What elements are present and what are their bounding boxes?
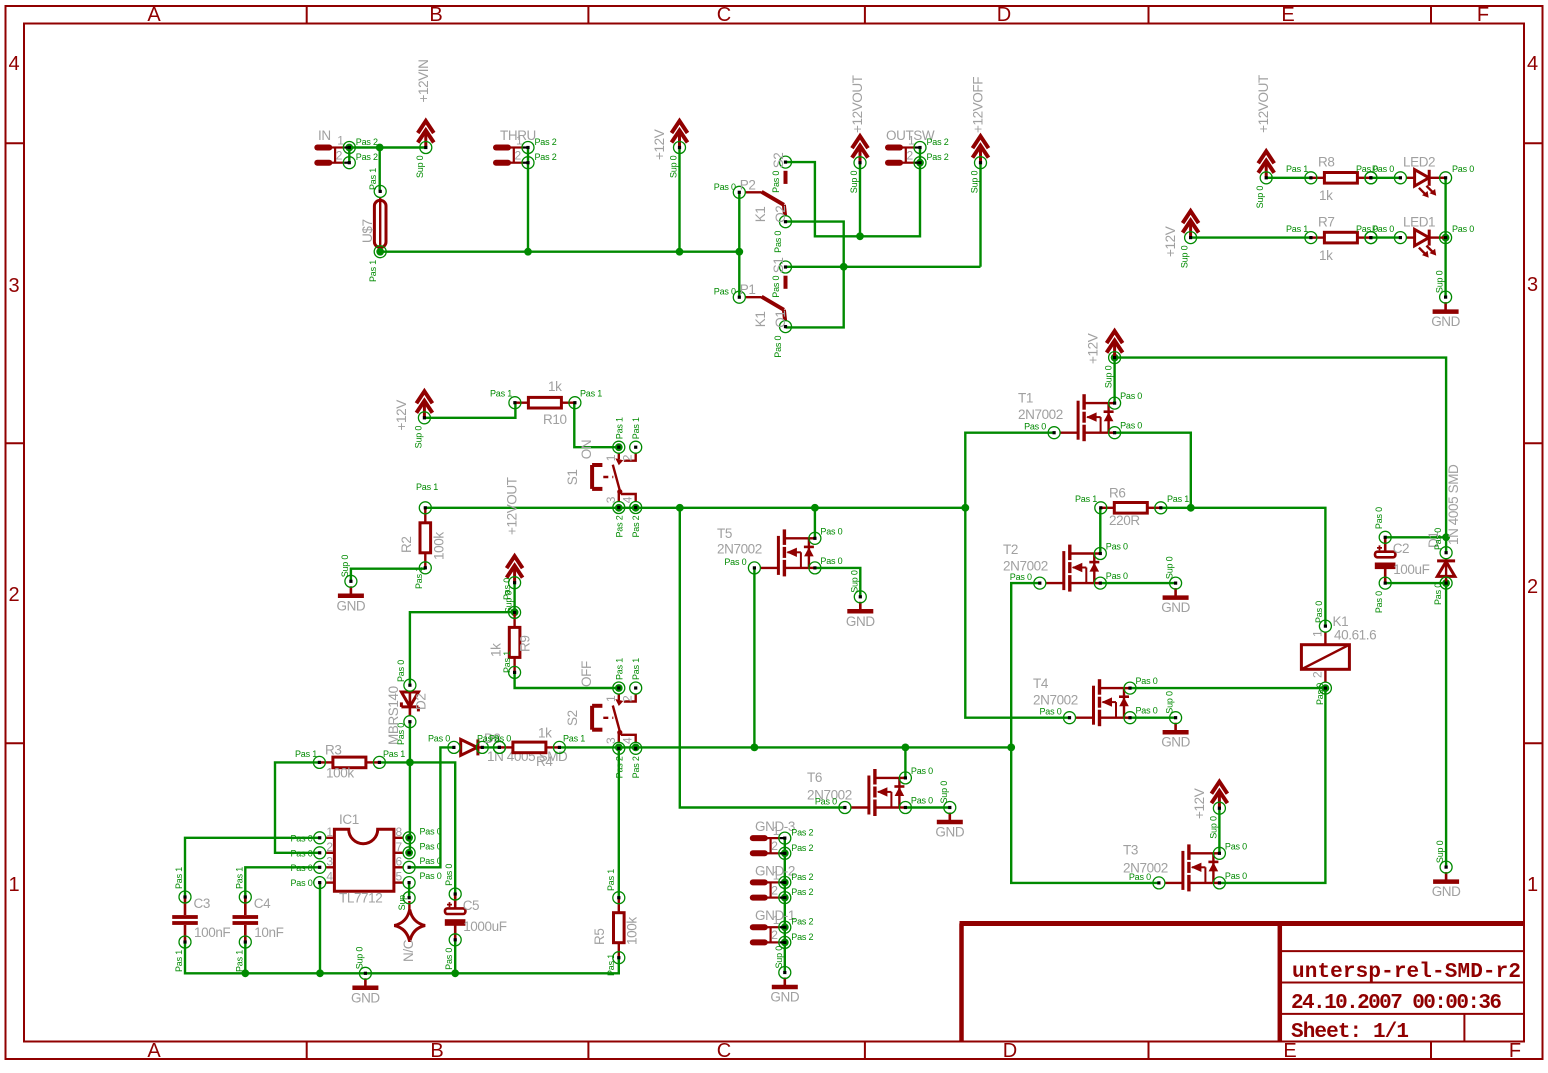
svg-text:S1: S1	[771, 257, 786, 273]
svg-text:Pas 1: Pas 1	[606, 869, 616, 891]
wire D1 bottom long down to GND	[1445, 583, 1447, 867]
svg-text:Pas 0: Pas 0	[1374, 507, 1384, 529]
svg-text:Pas 1: Pas 1	[631, 658, 641, 680]
wire K1 poles vertical P2-P1	[738, 192, 740, 297]
wire T6 gate branch	[680, 508, 845, 808]
node junction T5 gate	[751, 744, 759, 752]
svg-text:R7: R7	[1318, 214, 1334, 229]
relay contact K1 lower (P1/S1/O1)	[745, 276, 785, 321]
svg-text:A: A	[147, 1040, 161, 1062]
supply +12VOUT at R9	[507, 556, 523, 582]
svg-text:Sup 0: Sup 0	[1255, 186, 1265, 209]
ground GND at LEDs	[1433, 302, 1459, 312]
svg-text:Sup: Sup	[397, 895, 407, 911]
wire C4 bottom	[244, 942, 246, 973]
svg-text:Pas 0: Pas 0	[1315, 683, 1325, 705]
resistor R2	[420, 508, 431, 568]
svg-text:Pas 1: Pas 1	[631, 417, 641, 439]
svg-text:+12VOUT: +12VOUT	[850, 75, 865, 133]
svg-text:+12V: +12V	[394, 400, 409, 431]
svg-text:2: 2	[907, 149, 914, 163]
svg-text:+12V: +12V	[1192, 788, 1207, 819]
svg-text:Sup 0: Sup 0	[354, 947, 364, 970]
svg-text:Pas 0: Pas 0	[1010, 572, 1032, 582]
supply +12VOFF	[973, 136, 989, 162]
svg-text:O1: O1	[773, 310, 788, 327]
svg-text:Pas 2: Pas 2	[631, 756, 641, 778]
svg-text:Pas 2: Pas 2	[535, 152, 557, 162]
resistor R10	[515, 397, 575, 408]
svg-text:Pas 0: Pas 0	[1136, 706, 1158, 716]
svg-text:B: B	[430, 1040, 443, 1062]
svg-text:D: D	[997, 4, 1011, 26]
svg-text:Pas 0: Pas 0	[1024, 422, 1046, 432]
svg-text:1: 1	[8, 874, 19, 896]
wire THRU pin2 down	[527, 163, 529, 252]
svg-text:Pas 0: Pas 0	[396, 723, 406, 745]
svg-text:Pas 1: Pas 1	[614, 417, 624, 439]
node junction T5 drain branch	[811, 504, 819, 512]
svg-text:10nF: 10nF	[254, 925, 283, 940]
wire LED2 cathode down to LED1 cathode	[1444, 178, 1446, 238]
wire C4 top to IC1 pin3	[245, 867, 319, 897]
svg-text:Pas 1: Pas 1	[502, 651, 512, 673]
svg-text:C: C	[717, 1040, 731, 1062]
svg-text:2: 2	[326, 840, 333, 854]
svg-text:6: 6	[396, 854, 403, 868]
svg-text:220R: 220R	[1109, 513, 1140, 528]
svg-text:Pas 0: Pas 0	[724, 557, 746, 567]
svg-text:Pas 1: Pas 1	[368, 168, 378, 190]
wire main horizontal net after fuse	[380, 250, 739, 252]
switch S1 ON	[592, 453, 636, 501]
node junction S1 pin1	[615, 443, 623, 451]
svg-text:1: 1	[1311, 630, 1325, 637]
svg-text:Sup 0: Sup 0	[849, 570, 859, 593]
svg-text:Sup 0: Sup 0	[340, 555, 350, 578]
svg-text:Pas 1: Pas 1	[368, 260, 378, 282]
svg-text:Pas 2: Pas 2	[791, 932, 813, 942]
svg-text:R5: R5	[592, 929, 607, 945]
svg-text:3: 3	[326, 854, 333, 868]
wire T4 gate branch	[965, 508, 1069, 718]
svg-text:Pas 2: Pas 2	[356, 152, 378, 162]
svg-text:Sup 0: Sup 0	[1435, 270, 1445, 293]
wire LED cathodes to GND	[1444, 238, 1446, 298]
svg-text:Pas 1: Pas 1	[414, 567, 424, 589]
svg-text:R4: R4	[536, 754, 553, 769]
wire junction to relay K1 pin1	[1191, 508, 1326, 626]
node junction T2/T3 gate column	[1007, 744, 1015, 752]
supply +12VIN	[418, 121, 434, 147]
svg-text:3: 3	[1527, 274, 1538, 296]
diode D3 1N4005	[460, 739, 482, 755]
svg-text:1k: 1k	[548, 379, 562, 394]
svg-text:Pas 0: Pas 0	[1106, 571, 1128, 581]
node junction S1 pin4	[632, 504, 640, 512]
svg-text:Pas 0: Pas 0	[1433, 528, 1443, 550]
svg-text:Pas 2: Pas 2	[614, 515, 624, 537]
svg-text:P1: P1	[740, 282, 756, 297]
svg-text:Pas 0: Pas 0	[428, 734, 450, 744]
capacitor C2 polarized	[1375, 537, 1396, 583]
svg-text:Pas 0: Pas 0	[1120, 421, 1142, 431]
svg-text:Pas 0: Pas 0	[420, 841, 442, 851]
svg-text:Pas 2: Pas 2	[927, 152, 949, 162]
svg-text:1: 1	[604, 454, 618, 461]
supply +12V at T1	[1107, 331, 1123, 357]
svg-text:Pas 2: Pas 2	[791, 843, 813, 853]
node junction +12V T1	[1111, 354, 1119, 362]
resistor R6	[1101, 503, 1161, 514]
svg-text:Pas 1: Pas 1	[174, 867, 184, 889]
wire +12V A10 to T3 drain	[1218, 808, 1220, 853]
node junction D2/R3/C5/IC node	[406, 759, 414, 767]
wire node to C5 top	[410, 762, 455, 893]
svg-text:GND: GND	[846, 614, 875, 629]
node junction +12VOUT drop	[856, 232, 864, 240]
transistor T5	[760, 529, 815, 576]
connector IN	[317, 148, 349, 163]
svg-text:2: 2	[771, 883, 778, 897]
svg-text:Pas 0: Pas 0	[290, 848, 312, 858]
svg-text:Pas 2: Pas 2	[791, 917, 813, 927]
svg-text:R6: R6	[1109, 486, 1125, 501]
svg-text:2: 2	[771, 839, 778, 853]
svg-text:R10: R10	[543, 412, 567, 427]
node junction GND-2 pin2	[781, 894, 789, 902]
svg-text:Pas 0: Pas 0	[773, 231, 783, 253]
wire T1 gate branch	[965, 433, 1054, 508]
svg-text:Sup 0: Sup 0	[849, 171, 859, 194]
svg-text:Pas 2: Pas 2	[791, 887, 813, 897]
node junction IC1 pin4 bus	[316, 969, 324, 977]
wire T2 gate column	[1011, 583, 1159, 883]
ground GND at T2	[1163, 588, 1189, 598]
wire net +12VIN from IN connector	[349, 146, 426, 148]
wire +12VOUT A3 drop	[859, 163, 861, 237]
svg-text:Pas 1: Pas 1	[295, 749, 317, 759]
wire OFF row net	[560, 746, 1012, 748]
wire +12V A9 to T1 drain	[1113, 358, 1115, 404]
node junction OUTSW pin2	[916, 159, 924, 167]
svg-text:Sup 0: Sup 0	[774, 946, 784, 969]
svg-text:Pas 1: Pas 1	[1286, 164, 1308, 174]
svg-text:LED2: LED2	[1403, 155, 1435, 170]
connector GND-2	[753, 882, 785, 897]
svg-text:1: 1	[773, 824, 780, 838]
svg-text:Pas 0: Pas 0	[444, 864, 454, 886]
svg-text:Pas 1: Pas 1	[234, 950, 244, 972]
wire R9 top to D2 anode	[410, 612, 515, 685]
svg-text:C3: C3	[194, 896, 210, 911]
svg-text:Pas 0: Pas 0	[820, 556, 842, 566]
svg-text:O2: O2	[773, 206, 788, 223]
fuse U$7	[374, 197, 386, 251]
svg-text:Pas 0: Pas 0	[911, 766, 933, 776]
svg-text:Pas 0: Pas 0	[502, 578, 512, 600]
wire R3 left to IC1 pin2	[275, 762, 320, 852]
svg-text:8: 8	[396, 825, 403, 839]
svg-text:Sup 0: Sup 0	[1104, 365, 1114, 388]
node junction C4 bottom	[241, 969, 249, 977]
relay contact K1 upper (P2/S2/O2)	[745, 171, 785, 216]
svg-text:D: D	[1003, 1040, 1017, 1062]
diode D1 1N4005 SMD	[1437, 559, 1455, 583]
wire IC1 pin4 down to ground bus	[319, 883, 321, 974]
svg-text:Pas 1: Pas 1	[606, 954, 616, 976]
connector GND-3	[753, 838, 785, 853]
svg-text:Pas 0: Pas 0	[714, 287, 736, 297]
svg-text:GND: GND	[1161, 735, 1190, 750]
svg-text:Sup 0: Sup 0	[415, 155, 425, 178]
ground GND at diode column	[1433, 872, 1459, 882]
svg-text:4: 4	[1527, 53, 1538, 75]
svg-text:Pas 0: Pas 0	[771, 276, 781, 298]
svg-text:C2: C2	[1393, 541, 1409, 556]
wire T5 gate down	[753, 568, 755, 748]
node junction GND-1 pin2	[781, 939, 789, 947]
svg-text:Pas 0: Pas 0	[1374, 591, 1384, 613]
svg-text:Sup 0: Sup 0	[970, 171, 980, 194]
svg-text:4: 4	[621, 496, 635, 503]
svg-text:Sup 0: Sup 0	[669, 155, 679, 178]
wire R3 right to node	[380, 761, 410, 763]
svg-text:Pas 2: Pas 2	[791, 872, 813, 882]
wire relay pin2 down to T3 source	[1219, 688, 1325, 883]
node junction C5 bottom bus	[451, 969, 459, 977]
svg-text:Pas 0: Pas 0	[1120, 391, 1142, 401]
svg-text:IN: IN	[318, 128, 331, 143]
svg-text:T6: T6	[807, 770, 822, 785]
svg-text:Pas 2: Pas 2	[631, 515, 641, 537]
connector OUTSW	[888, 148, 920, 163]
svg-text:GND: GND	[351, 990, 380, 1005]
ground GND at T5	[847, 602, 873, 612]
wire T6 drain up	[904, 747, 906, 778]
svg-text:R2: R2	[399, 537, 414, 553]
svg-text:Pas 2: Pas 2	[535, 137, 557, 147]
svg-text:Sup 0: Sup 0	[1180, 245, 1190, 268]
wire C2 top to column	[1385, 536, 1446, 538]
led LED1	[1406, 229, 1445, 257]
svg-text:1: 1	[604, 695, 618, 702]
wire +12VOUT A8 to R9 top	[513, 583, 515, 613]
svg-text:Pas 0: Pas 0	[1225, 841, 1247, 851]
svg-text:Pas 0: Pas 0	[290, 833, 312, 843]
node junction GND-2 pin1	[781, 879, 789, 887]
svg-text:Pas 0: Pas 0	[444, 948, 454, 970]
svg-text:Pas 1: Pas 1	[234, 867, 244, 889]
svg-text:2: 2	[621, 454, 635, 461]
svg-text:Pas 1: Pas 1	[416, 482, 438, 492]
node junction R9 top	[511, 608, 519, 616]
wire C2 bottom to D1 bottom	[1385, 582, 1446, 584]
switch S2 OFF	[592, 694, 636, 742]
svg-text:GND: GND	[1431, 314, 1460, 329]
svg-text:R3: R3	[325, 743, 341, 758]
svg-text:1: 1	[326, 825, 333, 839]
svg-text:GND: GND	[770, 990, 799, 1005]
svg-text:100k: 100k	[432, 532, 447, 560]
wire node down to IC1 pins 8 and 7	[409, 762, 411, 852]
resistor R9	[509, 612, 520, 672]
svg-text:B: B	[429, 4, 442, 26]
svg-text:Pas 0: Pas 0	[714, 182, 736, 192]
svg-text:Pas 1: Pas 1	[580, 389, 602, 399]
svg-text:Sup 0: Sup 0	[1208, 816, 1218, 839]
wire R6 right to junction	[1161, 507, 1191, 509]
svg-text:2N7002: 2N7002	[1018, 407, 1063, 422]
ground GND at T4	[1163, 723, 1189, 733]
svg-text:2: 2	[771, 928, 778, 942]
svg-text:S2: S2	[771, 153, 786, 169]
svg-text:3: 3	[8, 275, 19, 297]
svg-text:2: 2	[515, 149, 522, 163]
node junction T6 gate branch	[676, 504, 684, 512]
transistor T3	[1165, 844, 1220, 891]
node junction GND-3 pin2	[781, 849, 789, 857]
svg-text:+12VOFF: +12VOFF	[971, 77, 986, 133]
svg-text:OFF: OFF	[579, 661, 594, 687]
svg-text:Pas 1: Pas 1	[174, 950, 184, 972]
wire IC1 pin5 to NC	[408, 883, 410, 898]
svg-text:Pas 0: Pas 0	[1039, 707, 1061, 717]
wire +12V to R7	[1191, 236, 1311, 238]
wire K1 O2 throw to O1 vertical	[786, 222, 844, 328]
svg-text:P2: P2	[740, 177, 756, 192]
svg-text:1N 4005 SMD: 1N 4005 SMD	[1446, 464, 1461, 545]
svg-text:Pas 0: Pas 0	[1106, 542, 1128, 552]
wire C3 top to IC1 pin1	[185, 838, 320, 897]
svg-text:R9: R9	[518, 636, 533, 652]
wire +12V row to C2/D1 column	[1115, 358, 1447, 538]
led LED2	[1406, 170, 1445, 198]
wire T4 source to GND	[1130, 717, 1176, 719]
svg-text:24.10.2007 00:00:36: 24.10.2007 00:00:36	[1291, 992, 1502, 1015]
svg-text:1: 1	[773, 913, 780, 927]
title block	[960, 924, 1525, 1042]
wire IC1 pin6 to D3 anode	[409, 747, 454, 867]
wire T1 source down	[1115, 433, 1191, 508]
svg-text:2: 2	[336, 149, 343, 163]
node junction R6 right / T1 source	[1187, 504, 1195, 512]
wire C5 bottom	[454, 940, 456, 973]
node junction T1/T4 gate branch	[961, 504, 969, 512]
svg-text:+12VIN: +12VIN	[416, 59, 431, 102]
wire T4 drain to relay K1 pin2	[1130, 687, 1325, 689]
transistor T6	[851, 769, 906, 816]
svg-text:Sup 0: Sup 0	[939, 781, 949, 804]
node junction +12V drop	[676, 248, 684, 256]
svg-text:T2: T2	[1003, 542, 1018, 557]
transistor T4	[1076, 679, 1131, 726]
svg-text:IC1: IC1	[339, 812, 359, 827]
supply +12VOUT at R8	[1258, 151, 1274, 177]
svg-text:K1: K1	[753, 311, 768, 327]
svg-text:100uF: 100uF	[1393, 562, 1429, 577]
wire OUTSW pin1 to pin2	[919, 148, 921, 163]
resistor R3	[319, 757, 379, 768]
node junction LED1 cathode	[1442, 234, 1450, 242]
svg-text:+12V: +12V	[1163, 226, 1178, 257]
svg-text:GND: GND	[935, 825, 964, 840]
ground GND at R2	[338, 586, 364, 596]
wire net +12VOUT long row	[425, 507, 965, 509]
svg-text:Pas 0: Pas 0	[1314, 601, 1324, 623]
ground GND at T6	[937, 813, 963, 823]
svg-text:3: 3	[604, 737, 618, 744]
node junction relay pin2	[1322, 684, 1330, 692]
svg-text:100nF: 100nF	[194, 925, 230, 940]
wire +12V A7 to R10	[424, 403, 515, 418]
svg-text:Pas 1: Pas 1	[563, 734, 585, 744]
node junction IC1 pin8	[405, 834, 413, 842]
svg-text:Pas 0: Pas 0	[420, 856, 442, 866]
svg-text:Pas 0: Pas 0	[420, 871, 442, 881]
svg-text:Pas 0: Pas 0	[290, 863, 312, 873]
ground GND at IC bus	[352, 978, 378, 988]
svg-text:S1: S1	[565, 469, 580, 485]
wire T6 source to GND	[905, 806, 949, 808]
wire R9 bottom to S2 pin1	[515, 673, 619, 688]
svg-text:Pas 0: Pas 0	[820, 526, 842, 536]
svg-text:4: 4	[621, 737, 635, 744]
svg-text:GND: GND	[1432, 884, 1461, 899]
svg-text:N/C: N/C	[401, 939, 416, 962]
svg-text:T4: T4	[1033, 676, 1049, 691]
svg-text:4: 4	[326, 870, 333, 884]
svg-text:4: 4	[8, 53, 19, 75]
node junction S1 pin3	[615, 504, 623, 512]
supply +12V at R7	[1183, 211, 1199, 237]
wire column to D1 anode	[1445, 537, 1447, 552]
node junction OFF net	[840, 263, 848, 271]
svg-text:Pas 1: Pas 1	[1075, 494, 1097, 504]
wire R2 bottom to GND	[351, 569, 425, 582]
svg-text:TL7712: TL7712	[339, 891, 382, 906]
wire GND connector chain	[784, 838, 786, 972]
supply +12V at R10	[416, 391, 432, 417]
relay coil K1 40.61.6	[1301, 632, 1349, 682]
ground GND at connector chain	[772, 978, 798, 988]
svg-text:1: 1	[516, 134, 523, 148]
wire R7 to LED1	[1371, 236, 1401, 238]
node junction S2 pin1	[615, 684, 623, 692]
wire T5 drain branch	[814, 508, 816, 539]
node junction S2 pin4	[632, 744, 640, 752]
svg-text:2N7002: 2N7002	[717, 542, 762, 557]
svg-text:Sup 0: Sup 0	[413, 426, 423, 449]
capacitor C3	[172, 897, 198, 942]
node junction at K1 poles	[735, 248, 743, 256]
svg-text:2: 2	[621, 695, 635, 702]
svg-text:Sup 0: Sup 0	[1435, 840, 1445, 863]
svg-text:1000uF: 1000uF	[463, 919, 507, 934]
svg-text:2: 2	[1311, 671, 1325, 678]
svg-text:7: 7	[396, 840, 403, 854]
svg-text:F: F	[1477, 4, 1489, 26]
svg-text:Pas 1: Pas 1	[383, 749, 405, 759]
svg-text:E: E	[1281, 4, 1294, 26]
capacitor C4	[233, 897, 259, 942]
svg-text:Pas 0: Pas 0	[911, 796, 933, 806]
svg-text:Pas 2: Pas 2	[791, 828, 813, 838]
svg-text:+12VOUT: +12VOUT	[1256, 75, 1271, 133]
svg-text:U$7: U$7	[360, 219, 375, 243]
svg-text:1: 1	[1527, 874, 1538, 896]
svg-text:Pas 0: Pas 0	[1372, 164, 1394, 174]
